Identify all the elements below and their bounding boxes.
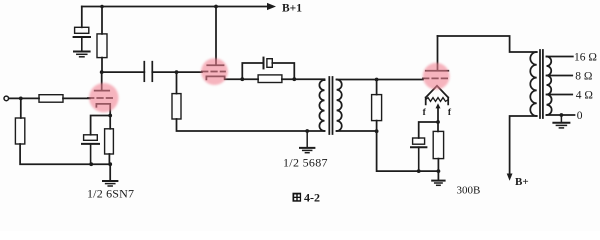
node 0 tap bbox=[560, 113, 564, 117]
transformer T2 core bbox=[540, 50, 543, 118]
wire R8 bottom bbox=[437, 159, 439, 172]
arrow B+ bbox=[507, 174, 513, 181]
wire T1 secondary bottom bbox=[337, 130, 377, 132]
filament zigzag bbox=[426, 98, 449, 102]
wire RC to T1 bbox=[294, 78, 324, 81]
svg-text:0: 0 bbox=[577, 110, 583, 122]
ground V1 cathode bbox=[103, 181, 117, 186]
node R7 top bbox=[375, 78, 379, 82]
wire plate node to C3 bbox=[102, 71, 145, 73]
wire tap 4 ohm bbox=[547, 94, 573, 96]
wire junction to C5 bbox=[419, 122, 438, 138]
wire input to grid bbox=[9, 97, 90, 99]
wire RC top branch right bbox=[272, 63, 294, 79]
node V2 grid junction bbox=[175, 70, 179, 74]
ground V3 bbox=[432, 181, 444, 186]
svg-text:f: f bbox=[448, 108, 452, 118]
node rail R4 bbox=[100, 5, 104, 9]
wire to cathode rail bbox=[377, 131, 419, 171]
svg-text:4 Ω: 4 Ω bbox=[576, 90, 593, 102]
node V3 cathode junction bbox=[436, 120, 440, 124]
wire R3 bottom bbox=[108, 154, 110, 164]
capacitor C5 bbox=[411, 138, 426, 171]
tube V3 highlight circle bbox=[423, 63, 450, 90]
wire to ground V3 bbox=[437, 171, 439, 180]
node RC right bbox=[292, 77, 296, 81]
tube V1 highlight circle bbox=[89, 83, 118, 112]
tube V2 highlight circle bbox=[201, 58, 228, 85]
transformer T2 primary bbox=[530, 52, 536, 116]
wire rail corner to C2 bbox=[81, 7, 83, 28]
wire grid node to V2 bbox=[177, 71, 203, 73]
svg-text:B+: B+ bbox=[515, 176, 529, 188]
tube V3 filament bbox=[426, 86, 449, 105]
resistor R1 bbox=[39, 95, 63, 103]
node T1 ground junction bbox=[305, 129, 309, 133]
svg-text:B+1: B+1 bbox=[282, 2, 302, 14]
resistor R4 bbox=[97, 34, 107, 58]
node C5 bottom bbox=[417, 169, 421, 173]
input terminal J1 bbox=[4, 96, 9, 101]
svg-text:300B: 300B bbox=[457, 185, 481, 197]
node V1 cathode junction bbox=[108, 114, 112, 118]
node plate junction bbox=[100, 70, 104, 74]
node C1 bottom bbox=[89, 162, 93, 166]
wire to ground V1 bbox=[109, 164, 111, 181]
wire C3 to grid node bbox=[152, 71, 176, 73]
wire T1 secondary top bbox=[337, 79, 423, 81]
wire cathode to C1 bbox=[91, 116, 111, 135]
wire cathode rail right bbox=[419, 170, 439, 172]
wire cathode rail bbox=[91, 163, 110, 165]
ground T2 bbox=[553, 115, 569, 128]
resistor R3 bbox=[105, 129, 114, 154]
ground C2 bbox=[74, 52, 90, 57]
tube V2 plate bbox=[207, 7, 223, 66]
tube V3 plate bbox=[426, 36, 449, 71]
node input junction bbox=[19, 97, 23, 101]
wire grid node to R5 bbox=[176, 72, 178, 94]
svg-text:4-2: 4-2 bbox=[304, 191, 320, 205]
wire RC main bbox=[242, 78, 294, 80]
wire B+1 rail bbox=[82, 6, 268, 8]
tube V1 grid bbox=[88, 97, 112, 99]
resistor R6 bbox=[258, 75, 282, 83]
resistor R7 bbox=[372, 95, 382, 121]
wire RC top branch left bbox=[242, 63, 263, 79]
capacitor C1 bbox=[82, 135, 99, 164]
node RC left bbox=[240, 77, 244, 81]
wire R2 top bbox=[20, 98, 22, 118]
wire V3 plate to T2 bbox=[438, 36, 537, 52]
resistor R2 bbox=[15, 118, 24, 144]
wire R4 to plate node bbox=[101, 58, 103, 73]
svg-text:f: f bbox=[423, 108, 427, 118]
node R3 bottom bbox=[108, 162, 112, 166]
arrow cathode up bbox=[437, 108, 439, 122]
svg-text:1/2 6SN7: 1/2 6SN7 bbox=[87, 187, 134, 201]
caption figure 4-2 bbox=[293, 193, 302, 202]
wire R7 top bbox=[376, 80, 378, 95]
tube V3 grid bbox=[423, 77, 450, 79]
resistor R8 bbox=[433, 131, 443, 158]
capacitor C4 bbox=[264, 58, 273, 69]
capacitor C3 bbox=[144, 62, 152, 81]
wire junction to R8 bbox=[437, 122, 439, 131]
node T1 secondary bottom bbox=[375, 129, 379, 133]
node rail V2 plate bbox=[214, 5, 218, 9]
tube V1 plate bbox=[95, 72, 110, 91]
svg-text:1/2 5687: 1/2 5687 bbox=[283, 155, 328, 169]
wire cathode to R3 bbox=[109, 116, 111, 129]
transformer T2 secondary bbox=[547, 57, 552, 116]
wire R7 bottom bbox=[376, 121, 378, 132]
tube V2 cathode bbox=[206, 76, 242, 79]
tube V2 grid bbox=[202, 71, 225, 73]
node R8 bottom bbox=[437, 169, 441, 173]
wire R5 to rail bbox=[177, 119, 325, 131]
transformer T1 secondary bbox=[337, 80, 342, 132]
wire tap 0 bbox=[547, 114, 575, 116]
ground T1 bbox=[300, 131, 314, 153]
wire tap 8 ohm bbox=[547, 75, 573, 77]
transformer T1 core bbox=[329, 77, 332, 134]
arrow B+1 bbox=[267, 3, 276, 10]
capacitor C2 bbox=[74, 27, 90, 51]
wire rail to R4 bbox=[101, 7, 103, 34]
tube V1 cathode bbox=[96, 104, 110, 116]
transformer T1 primary bbox=[319, 80, 324, 131]
resistor R5 bbox=[172, 94, 181, 119]
svg-text:16 Ω: 16 Ω bbox=[574, 51, 597, 63]
wire tap 16 ohm bbox=[547, 56, 573, 58]
wire R2 bottom to rail bbox=[20, 144, 91, 164]
wire T2 primary bottom to B+ bbox=[510, 116, 537, 174]
svg-text:8 Ω: 8 Ω bbox=[575, 71, 592, 83]
